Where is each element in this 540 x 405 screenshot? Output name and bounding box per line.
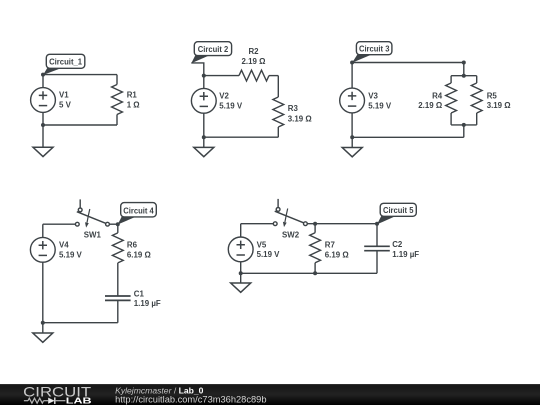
- svg-text:R7: R7: [325, 241, 336, 250]
- ground c2: [194, 137, 214, 157]
- resistor R2: [239, 47, 269, 81]
- node top-left c3: [350, 61, 354, 65]
- svg-text:3.19 Ω: 3.19 Ω: [487, 101, 511, 110]
- svg-text:2.19 Ω: 2.19 Ω: [242, 57, 266, 66]
- svg-text:V5: V5: [257, 240, 267, 249]
- resistor R3: [273, 76, 312, 138]
- wire bottom rail c1: [43, 124, 117, 126]
- wire top rail right c2: [269, 75, 278, 77]
- svg-text:5.19 V: 5.19 V: [59, 251, 83, 260]
- resistor R7: [310, 224, 349, 274]
- svg-text:R3: R3: [288, 104, 299, 113]
- capacitor C1: [105, 289, 161, 322]
- node parallel bottom c3: [462, 123, 466, 127]
- svg-text:Circuit 4: Circuit 4: [123, 206, 154, 216]
- wire bottom rail c3: [352, 136, 464, 138]
- svg-text:R5: R5: [487, 92, 498, 101]
- svg-text:Circuit 5: Circuit 5: [383, 205, 414, 215]
- svg-text:C1: C1: [134, 289, 145, 298]
- voltage source V5: [228, 224, 280, 274]
- wire top rail c3: [352, 62, 464, 64]
- svg-text:SW2: SW2: [282, 231, 300, 240]
- svg-text:3.19 Ω: 3.19 Ω: [288, 114, 312, 123]
- wire label tail c2: [191, 63, 204, 76]
- wire stub top c3: [463, 63, 465, 76]
- svg-text:V4: V4: [59, 241, 69, 250]
- wire bottom bar parallel c3: [451, 124, 477, 126]
- svg-text:5.19 V: 5.19 V: [219, 102, 243, 111]
- node top-right c3: [462, 61, 466, 65]
- node ground c5: [239, 271, 243, 275]
- svg-text:5.19 V: 5.19 V: [368, 101, 392, 110]
- wire top left c5: [241, 223, 274, 225]
- resistor R4: [418, 76, 456, 125]
- node bottom c4: [41, 321, 45, 325]
- wire top left c4: [43, 223, 76, 225]
- node switch-R6 c4: [116, 222, 120, 226]
- svg-text:C2: C2: [392, 240, 403, 249]
- ground c3: [342, 137, 362, 157]
- voltage source V2: [191, 76, 242, 138]
- label Circuit 4: [118, 203, 157, 225]
- node R7 bottom c5: [313, 271, 317, 275]
- node top c1: [41, 73, 45, 77]
- svg-text:1 Ω: 1 Ω: [127, 101, 140, 110]
- wire switch to C2 c5: [307, 223, 377, 225]
- svg-text:R2: R2: [248, 47, 259, 56]
- node parallel top c3: [462, 74, 466, 78]
- label Circuit 3: [352, 42, 392, 63]
- svg-text:V1: V1: [59, 91, 69, 100]
- resistor R5: [471, 76, 510, 125]
- logo wire with resistor and diode: [24, 397, 66, 404]
- svg-text:5 V: 5 V: [59, 101, 72, 110]
- svg-text:2.19 Ω: 2.19 Ω: [418, 101, 442, 110]
- resistor R1: [112, 75, 140, 125]
- node C2 top c5: [375, 222, 379, 226]
- node top c2: [202, 74, 206, 78]
- capacitor C2: [364, 224, 419, 274]
- svg-text:Circuit_1: Circuit_1: [49, 57, 82, 67]
- wire top rail c1: [43, 74, 117, 76]
- wire top rail left c2: [204, 75, 239, 77]
- node bottom c2: [202, 135, 206, 139]
- wire switch to node c4: [109, 223, 117, 225]
- wire stub bottom c3: [463, 125, 465, 137]
- svg-text:5.19 V: 5.19 V: [257, 250, 281, 259]
- svg-text:6.19 Ω: 6.19 Ω: [325, 251, 349, 260]
- switch SW1: [75, 199, 109, 239]
- voltage source V3: [340, 63, 392, 138]
- svg-text:1.19 µF: 1.19 µF: [134, 299, 161, 308]
- svg-text:R4: R4: [432, 92, 443, 101]
- svg-text:6.19 Ω: 6.19 Ω: [127, 251, 151, 260]
- voltage source V1: [31, 75, 72, 125]
- svg-text:Circuit 2: Circuit 2: [198, 44, 229, 54]
- wire top bar parallel c3: [451, 75, 477, 77]
- ground c5: [231, 273, 251, 292]
- switch SW2: [273, 199, 307, 240]
- voltage source V4: [30, 224, 82, 323]
- label Circuit_1: [43, 54, 85, 75]
- wire bottom rail c5: [241, 272, 377, 274]
- svg-text:V2: V2: [219, 92, 229, 101]
- label Circuit 2: [191, 42, 231, 64]
- node bottom c3: [350, 135, 354, 139]
- wire bottom rail c4: [43, 322, 118, 324]
- resistor R6: [112, 224, 150, 296]
- ground c1: [33, 125, 53, 157]
- svg-text:http://circuitlab.com/c73m36h2: http://circuitlab.com/c73m36h28c89b: [115, 395, 266, 405]
- svg-text:R1: R1: [127, 91, 138, 100]
- svg-text:Circuit 3: Circuit 3: [359, 44, 390, 54]
- svg-text:LAB: LAB: [66, 397, 92, 405]
- svg-text:SW1: SW1: [84, 230, 102, 239]
- node switch-R7 c5: [313, 222, 317, 226]
- svg-text:1.19 µF: 1.19 µF: [392, 250, 419, 259]
- ground c4: [33, 323, 53, 343]
- svg-text:V3: V3: [368, 92, 378, 101]
- node bottom c1: [41, 123, 45, 127]
- svg-text:R6: R6: [127, 241, 138, 250]
- wire bottom rail c2: [204, 136, 278, 138]
- label Circuit 5: [377, 203, 416, 224]
